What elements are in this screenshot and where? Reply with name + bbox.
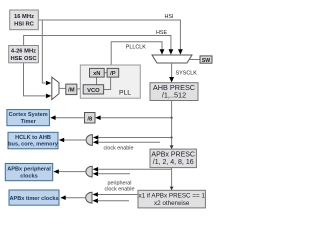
junction at trunk and /8 branch: [171, 117, 173, 119]
divider /8: [85, 113, 96, 124]
arrow SYSCLK into AHB PRESC: [169, 77, 174, 83]
sink box Cortex System Timer: [7, 110, 50, 126]
junction at trunk HCLK branch: [171, 136, 173, 138]
svg-text:HSI: HSI: [165, 14, 174, 20]
arrow trunk into APBx PRESC: [170, 145, 174, 149]
arrow into APBx peripheral clocks box: [53, 169, 58, 174]
wire /8 to Cortex timer box: [55, 117, 84, 119]
arrow into gate G2 enable input: [93, 172, 98, 177]
svg-text:PLLCLK: PLLCLK: [126, 45, 146, 51]
arrow into x1/x2 box: [170, 187, 174, 191]
svg-text:SYSCLK: SYSCLK: [176, 71, 198, 77]
svg-text:clocks: clocks: [20, 173, 37, 179]
wire G3 to APBx timer clocks box: [65, 197, 86, 199]
svg-text:4-26 MHz: 4-26 MHz: [11, 49, 36, 55]
wire xN to /P: [104, 72, 107, 74]
arrow HSI into PLL mux top input: [46, 81, 51, 86]
oscillator box HSE OSC: [9, 46, 39, 63]
svg-text:clock enable: clock enable: [104, 145, 134, 151]
wire HCLK trunk down to APBx PRESC: [171, 101, 173, 149]
arrow HSI into SYSCLK mux: [178, 49, 183, 54]
arrow PLLCLK into SYSCLK mux: [160, 49, 165, 54]
wire HCLK branch to AND gate G1: [99, 137, 172, 139]
arrow HSE into SYSCLK mux: [169, 49, 174, 54]
divider /P: [107, 68, 119, 77]
prescaler APBx PRESC: [150, 149, 196, 168]
multiplier xN: [90, 68, 105, 77]
wire APBx clock branch to gate G2: [98, 168, 171, 170]
arrow into gate G2 clock input: [93, 167, 98, 172]
wire xN to VCO: [96, 77, 98, 85]
sink box HCLK to AHB bus, core, memory: [8, 132, 59, 149]
arrow into gate G1 enable input: [93, 140, 98, 145]
svg-text:SW: SW: [202, 58, 210, 64]
svg-text:APBx peripheral: APBx peripheral: [7, 167, 51, 173]
svg-text:HCLK to AHB: HCLK to AHB: [15, 135, 51, 141]
oscillator box HSI RC: [10, 10, 39, 30]
multiplier box x1/x2: [138, 190, 205, 208]
mux PLL clock source (trapezoid): [52, 77, 59, 99]
svg-text:xN: xN: [93, 71, 100, 77]
svg-text:APBx timer clocks: APBx timer clocks: [9, 196, 58, 202]
AND gate G3 (APBx timer gate): [86, 192, 92, 203]
wire VCO to /P feedback: [104, 77, 111, 89]
oscillator VCO: [83, 85, 103, 94]
svg-text:/8: /8: [87, 116, 93, 122]
wire x1/x2 to gate G3: [98, 194, 138, 196]
sink box APBx peripheral clocks: [5, 164, 52, 181]
arrow into gate G1 clock input: [93, 135, 98, 140]
svg-text:/P: /P: [110, 71, 116, 77]
arrow HSE into PLL mux bottom input: [46, 94, 51, 99]
svg-text:Cortex System: Cortex System: [9, 112, 48, 118]
wire clock enable into G1: [99, 141, 161, 143]
wire G1 to HCLK box: [64, 139, 87, 141]
svg-text:Timer: Timer: [21, 119, 37, 125]
wire /M to PLL block: [77, 88, 83, 90]
wire peripheral clock enable into G2: [98, 173, 130, 175]
svg-text:VCO: VCO: [87, 88, 100, 94]
PLL block outline: [80, 65, 140, 98]
wire trunk APBx PRESC down to x1/x2 box: [171, 168, 173, 190]
arrow into gate G3 clock input: [93, 192, 98, 197]
wire SYSCLK: [171, 63, 173, 78]
arrow into APBx timer clocks box: [60, 195, 65, 200]
wire PLL mux to /M: [59, 87, 66, 89]
sink box APBx timer clocks: [9, 190, 59, 205]
switch SW: [200, 56, 212, 64]
arrow into HCLK box: [59, 138, 64, 143]
wire timer clock enable into G3: [98, 200, 129, 202]
wire mux to SW: [190, 59, 201, 61]
svg-text:HSE OSC: HSE OSC: [10, 56, 37, 62]
arrow into gate G3 enable input: [93, 198, 98, 203]
svg-text:/1, 2, 4, 8, 16: /1, 2, 4, 8, 16: [153, 159, 194, 166]
svg-text:16 MHz: 16 MHz: [14, 14, 34, 20]
svg-text:/M: /M: [68, 88, 75, 94]
mux SYSCLK source (trapezoid): [152, 55, 192, 63]
svg-text:HSE: HSE: [156, 30, 167, 36]
svg-text:APBx PRESC: APBx PRESC: [151, 151, 195, 158]
divider /M: [66, 84, 77, 95]
svg-text:x1 if APBx PRESC == 1: x1 if APBx PRESC == 1: [138, 193, 205, 200]
svg-text:HSI RC: HSI RC: [14, 22, 34, 28]
wire HSE output to SYSCLK mux: [24, 36, 171, 50]
svg-text:/1,..512: /1,..512: [162, 91, 186, 100]
wire PLLCLK from /P to SYSCLK mux: [111, 42, 162, 69]
wire HSE branch to PLL source mux: [24, 63, 46, 96]
svg-text:peripheral: peripheral: [108, 180, 132, 186]
AND gate G1 (HCLK gate): [86, 135, 92, 146]
svg-text:clock enable: clock enable: [105, 186, 135, 192]
prescaler AHB PRESC: [150, 83, 198, 101]
svg-text:x2 otherwise: x2 otherwise: [154, 200, 190, 207]
wire HSI output to SYSCLK mux: [38, 20, 180, 50]
wire G2 to APBx peripheral clocks box: [58, 171, 86, 173]
svg-text:PLL: PLL: [119, 89, 131, 96]
svg-text:bus, core, memory: bus, core, memory: [8, 142, 59, 148]
arrow into Cortex timer box: [50, 115, 55, 120]
arrow into /8: [95, 115, 100, 120]
AND gate G2 (APBx peripheral gate): [86, 166, 92, 177]
wire branch to /8 divider: [100, 117, 172, 119]
wire HSI branch to PLL source mux: [42, 20, 45, 83]
